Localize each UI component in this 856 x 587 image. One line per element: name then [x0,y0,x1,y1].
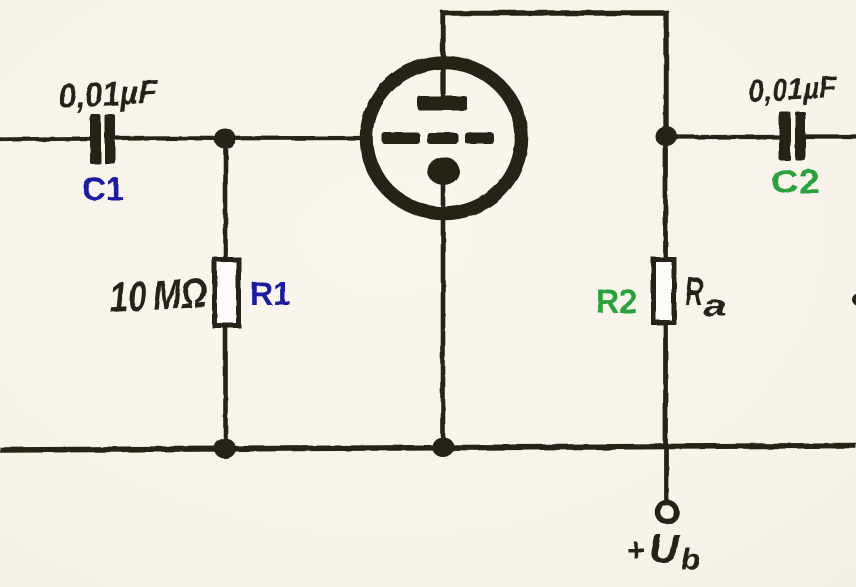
svg-text:R: R [685,270,703,314]
svg-text:R1: R1 [250,275,291,312]
svg-text:10 MΩ: 10 MΩ [108,269,208,321]
svg-text:0,01µF: 0,01µF [748,69,839,109]
svg-text:b: b [681,544,700,576]
svg-text:0,01µF: 0,01µF [57,73,159,116]
svg-text:R2: R2 [596,283,637,321]
svg-text:C1: C1 [82,171,124,207]
svg-text:a: a [703,290,727,323]
svg-text:+: + [626,532,645,568]
svg-text:C2: C2 [771,163,820,200]
svg-text:U: U [649,527,680,571]
